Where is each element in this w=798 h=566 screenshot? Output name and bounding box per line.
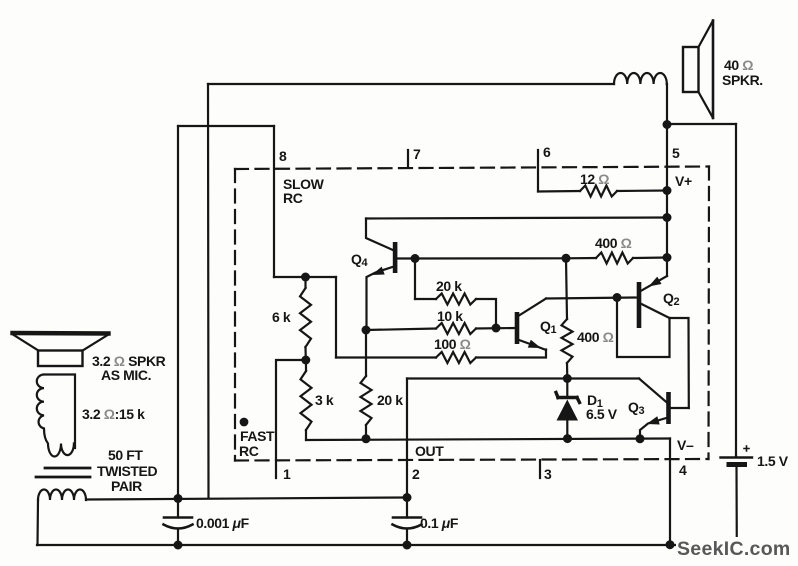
- svg-text:3 k: 3 k: [315, 392, 334, 408]
- node D1 bottom: [563, 434, 572, 443]
- svg-text:10 k: 10 k: [437, 308, 463, 324]
- transformer core lines: [36, 468, 90, 477]
- svg-text:40 Ω: 40 Ω: [724, 57, 753, 73]
- svg-text:OUT: OUT: [415, 443, 444, 459]
- wire second rail y=126: [178, 125, 274, 127]
- svg-text:Q3: Q3: [628, 399, 645, 417]
- svg-text:RC: RC: [239, 443, 259, 459]
- svg-text:400 Ω: 400 Ω: [595, 235, 632, 251]
- node Q1 base: [492, 324, 501, 333]
- wire 20kH to Q1 base node: [476, 299, 496, 328]
- wire to 20kH: [415, 298, 436, 300]
- node Q4 base rail at V+: [663, 213, 672, 222]
- wire 100 ohm to Q1 emitter corner: [476, 350, 546, 358]
- wire pin8 net drop x=336: [335, 277, 337, 358]
- wire left riser x=178: [177, 126, 179, 499]
- resistor R 400 ohm horizontal: [566, 257, 596, 259]
- transistor Q1: [515, 299, 546, 351]
- svg-text:Q1: Q1: [540, 318, 557, 336]
- svg-text:V–: V–: [677, 437, 694, 453]
- node V+ 12ohm: [663, 186, 672, 195]
- pin 3 tick: [539, 460, 541, 478]
- watermark SeekIC.com: [676, 537, 795, 559]
- speaker SPK2 40 ohm: [683, 21, 713, 119]
- wire pin 4 drop: [669, 439, 671, 546]
- svg-text:0.1 μF: 0.1 μF: [420, 515, 459, 531]
- wire bottom interior rail y=439: [306, 439, 670, 441]
- node 400V top: [562, 254, 571, 263]
- svg-text:20 k: 20 k: [377, 392, 403, 408]
- wire coil to top-right corner down to node: [666, 84, 668, 124]
- node 6k/3k junction: [301, 356, 310, 365]
- svg-text:6.5 V: 6.5 V: [586, 406, 618, 422]
- node Q3 emitter: [636, 434, 645, 443]
- pin 6 tick and 12 ohm: [537, 150, 539, 192]
- wire Q1 collector to Q2 base: [546, 298, 639, 299]
- label 1.5 V: [757, 453, 789, 469]
- capacitor C2 0.1uF: [393, 498, 422, 546]
- pin 7 tick: [407, 150, 409, 167]
- transistor Q3: [639, 379, 689, 439]
- svg-text:100 Ω: 100 Ω: [434, 336, 471, 352]
- node fast rc bullet: [240, 418, 249, 427]
- wire pin8 net horizontal to 6k top: [274, 276, 336, 278]
- wire pin8 net to 100 ohm: [336, 356, 436, 358]
- svg-text:20 k: 20 k: [436, 278, 462, 294]
- capacitor C1 0.001uF: [164, 499, 193, 546]
- battery B1 1.5V: [721, 446, 753, 545]
- svg-text:TWISTED: TWISTED: [97, 463, 157, 479]
- wire mic rail y=498: [86, 498, 407, 500]
- svg-text:3.2 Ω:15 k: 3.2 Ω:15 k: [82, 406, 145, 422]
- wire fast-rc branch to pin 1: [276, 360, 306, 478]
- svg-text:50 FT: 50 FT: [108, 447, 143, 463]
- resistor R 400 ohm vertical: [566, 258, 567, 319]
- svg-text:3: 3: [544, 466, 552, 482]
- wire Q4 base rail to V+: [366, 218, 667, 219]
- wire pin 8 riser x=274: [273, 126, 275, 277]
- node OUT / 0.1 cap: [403, 493, 412, 502]
- wire pin 2 OUT drop: [406, 379, 408, 498]
- svg-text:0.001 μF: 0.001 μF: [196, 515, 250, 531]
- svg-text:12 Ω: 12 Ω: [580, 171, 609, 187]
- node ground pin4: [666, 540, 675, 549]
- node Q1 collector / Q2 base: [613, 293, 622, 302]
- wire 20kH drop from Q4 collector node: [414, 259, 416, 300]
- svg-text:2: 2: [412, 466, 420, 482]
- svg-text:400 Ω: 400 Ω: [577, 329, 614, 345]
- svg-text:4: 4: [679, 462, 687, 478]
- inductor L1 (speaker coupling coil): [614, 73, 667, 84]
- inductor L2 line coupling coil: [38, 490, 86, 501]
- svg-text:AS MIC.: AS MIC.: [101, 367, 151, 383]
- resistor R 20k vertical: [365, 330, 367, 376]
- node 6k top: [301, 273, 310, 282]
- node V+ 400H: [663, 253, 672, 262]
- node 20k bottom: [362, 434, 371, 443]
- wire 10k to Q1 base: [476, 327, 515, 330]
- transistor Q2: [617, 276, 689, 408]
- resistor R 3k: [305, 360, 307, 371]
- node mic rail / 0.001 cap: [174, 494, 183, 503]
- svg-text:8: 8: [279, 148, 287, 164]
- svg-text:SeekIC.com: SeekIC.com: [677, 538, 791, 560]
- svg-text:7: 7: [413, 146, 421, 162]
- resistor 100 ohm: [436, 352, 476, 363]
- svg-text:RC: RC: [283, 190, 303, 206]
- IC dashed box: [235, 167, 709, 461]
- node ground 0.001: [174, 541, 183, 550]
- svg-text:SPKR.: SPKR.: [722, 72, 763, 88]
- transformer T1 winding 3.2ohm:15k: [37, 375, 75, 457]
- svg-text:1: 1: [283, 466, 291, 482]
- resistor R 12 ohm: [580, 186, 617, 197]
- node Q4 collector: [411, 254, 420, 263]
- svg-text:Q2: Q2: [663, 290, 680, 308]
- diode D1 zener: [556, 379, 580, 439]
- svg-text:V+: V+: [675, 173, 692, 189]
- svg-text:5: 5: [672, 145, 680, 161]
- node top-right junction: [663, 120, 672, 129]
- svg-text:1.5 V: 1.5 V: [757, 453, 789, 469]
- svg-text:6: 6: [543, 144, 551, 160]
- wire OUT riser left (x=208): [207, 84, 210, 498]
- wire node to battery top: [667, 123, 736, 125]
- svg-text:PAIR: PAIR: [111, 478, 142, 494]
- resistor R 10k: [436, 323, 476, 334]
- node 400V bottom / D1 / OUT rail: [563, 374, 572, 383]
- wire 10k rail: [366, 329, 436, 331]
- resistor R 6k: [304, 277, 306, 288]
- wire V+ riser pin 5: [666, 124, 668, 276]
- svg-text:FAST: FAST: [240, 428, 275, 444]
- node 20k top / 10k / Q4 emitter: [362, 326, 371, 335]
- wire top rail from OUT riser to coil: [208, 83, 614, 85]
- transistor Q4: [366, 219, 566, 331]
- resistor R 20k horizontal: [436, 294, 476, 305]
- wire OUT rail y=378: [407, 377, 639, 379]
- svg-text:Q4: Q4: [351, 251, 369, 269]
- wire battery right riser (top): [735, 124, 737, 456]
- svg-text:6 k: 6 k: [272, 309, 291, 325]
- wire coil left drop: [36, 500, 39, 545]
- node ground 0.1: [403, 541, 412, 550]
- wire bottom ground rail: [37, 544, 737, 546]
- speaker SPK1 as mic: [13, 333, 109, 366]
